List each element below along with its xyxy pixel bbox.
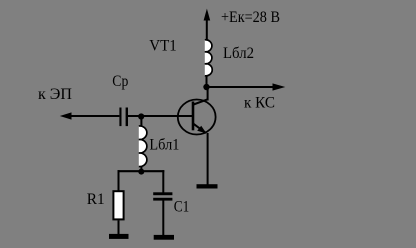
wire input arrow k EP [60,112,120,119]
wire to KC arrow [207,83,286,90]
resistor R1 [113,191,123,219]
node collector junction [203,84,209,90]
inductor Lbl1 [139,126,147,167]
wire C1 to ground [162,201,164,236]
ground R1 [109,234,129,239]
svg-text:Lбл1: Lбл1 [149,137,179,154]
node base junction [138,113,144,119]
wire Lbl1 to bottom rail [140,166,142,172]
capacitor Cp [119,108,128,127]
svg-text:R1: R1 [87,191,105,208]
ground emitter [197,184,218,188]
node bottom junction [138,169,144,175]
svg-text:С1: С1 [174,198,190,215]
wire emitter vertical [207,133,209,185]
wire R1 to ground [118,220,120,234]
svg-text:к ЭП: к ЭП [38,86,72,103]
wire rail to C1 [162,170,164,192]
wire rail to R1 [118,170,120,190]
svg-text:VT1: VT1 [149,37,177,54]
svg-text:Ср: Ср [112,73,128,90]
svg-text:Lбл2: Lбл2 [223,45,254,62]
supply arrow +Ek [204,9,211,40]
ground C1 [154,235,174,240]
wire collector vertical [206,76,208,89]
capacitor C1 [153,192,172,200]
wire base lead [128,115,193,117]
inductor Lbl2 [205,40,212,76]
transistor VT1 [178,99,216,134]
svg-text:к КС: к КС [244,94,275,111]
wire junction to Lbl1 [140,117,142,127]
wire bottom rail [118,170,165,172]
svg-text:+Ек=28 В: +Ек=28 В [221,9,280,26]
